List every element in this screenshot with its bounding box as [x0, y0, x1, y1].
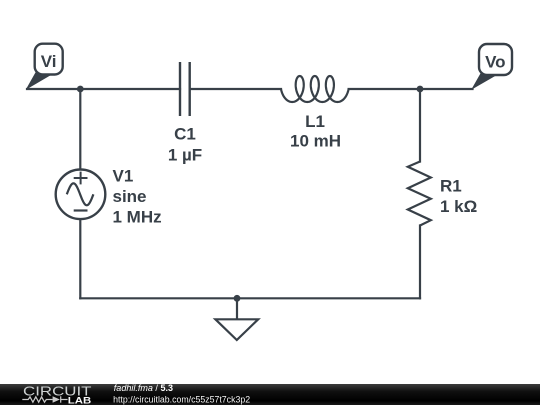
voltage source V1 minus sign: [74, 209, 88, 211]
wire left vertical lower (V1 to ground rail): [79, 219, 81, 298]
wire C1 to L1: [190, 88, 281, 90]
CircuitLab logo diode: [53, 396, 60, 402]
wire right vertical upper (node Vo to R1): [419, 89, 421, 162]
svg-text:LAB: LAB: [68, 396, 92, 405]
node junction dot Vo: [417, 86, 424, 93]
voltage source V1 circle: [56, 170, 106, 220]
svg-text:Vi: Vi: [41, 52, 57, 71]
ground symbol: [215, 298, 258, 340]
capacitor C1 plates: [180, 62, 190, 116]
wire bottom ground rail: [80, 297, 420, 299]
svg-text:1 µF: 1 µF: [168, 145, 202, 164]
svg-text:V1: V1: [113, 167, 134, 186]
svg-text:http://circuitlab.com/c55z57t7: http://circuitlab.com/c55z57t7ck3p2: [113, 394, 250, 404]
wire left vertical upper (node Vi to V1): [79, 89, 81, 170]
wire right vertical lower (R1 to ground rail): [419, 226, 421, 299]
voltage source V1 sine wave: [67, 183, 94, 205]
node junction dot Vi: [77, 86, 84, 93]
svg-text:1 kΩ: 1 kΩ: [440, 197, 477, 216]
svg-text:R1: R1: [440, 177, 462, 196]
flag Vo pointer: [472, 74, 496, 89]
node junction dot ground: [234, 295, 241, 302]
svg-text:sine: sine: [113, 187, 147, 206]
svg-text:L1: L1: [305, 112, 325, 131]
inductor L1 coil: [281, 76, 349, 102]
resistor R1 zigzag: [408, 162, 431, 226]
voltage source V1 plus sign: [74, 172, 88, 185]
footer bar: [0, 384, 540, 405]
svg-text:10 mH: 10 mH: [290, 132, 341, 151]
flag Vi box: [35, 44, 63, 75]
flag Vo box: [479, 44, 512, 75]
svg-text:fadhil.fma / 5.3: fadhil.fma / 5.3: [114, 383, 173, 393]
flag Vi pointer: [27, 73, 51, 89]
svg-text:Vo: Vo: [485, 52, 505, 71]
wire L1 to Vo: [349, 88, 473, 90]
CircuitLab logo resistor wire glyph: [22, 396, 67, 402]
wire top-left (Vi to C1): [27, 88, 180, 90]
svg-text:C1: C1: [174, 125, 196, 144]
svg-text:1 MHz: 1 MHz: [113, 208, 162, 227]
